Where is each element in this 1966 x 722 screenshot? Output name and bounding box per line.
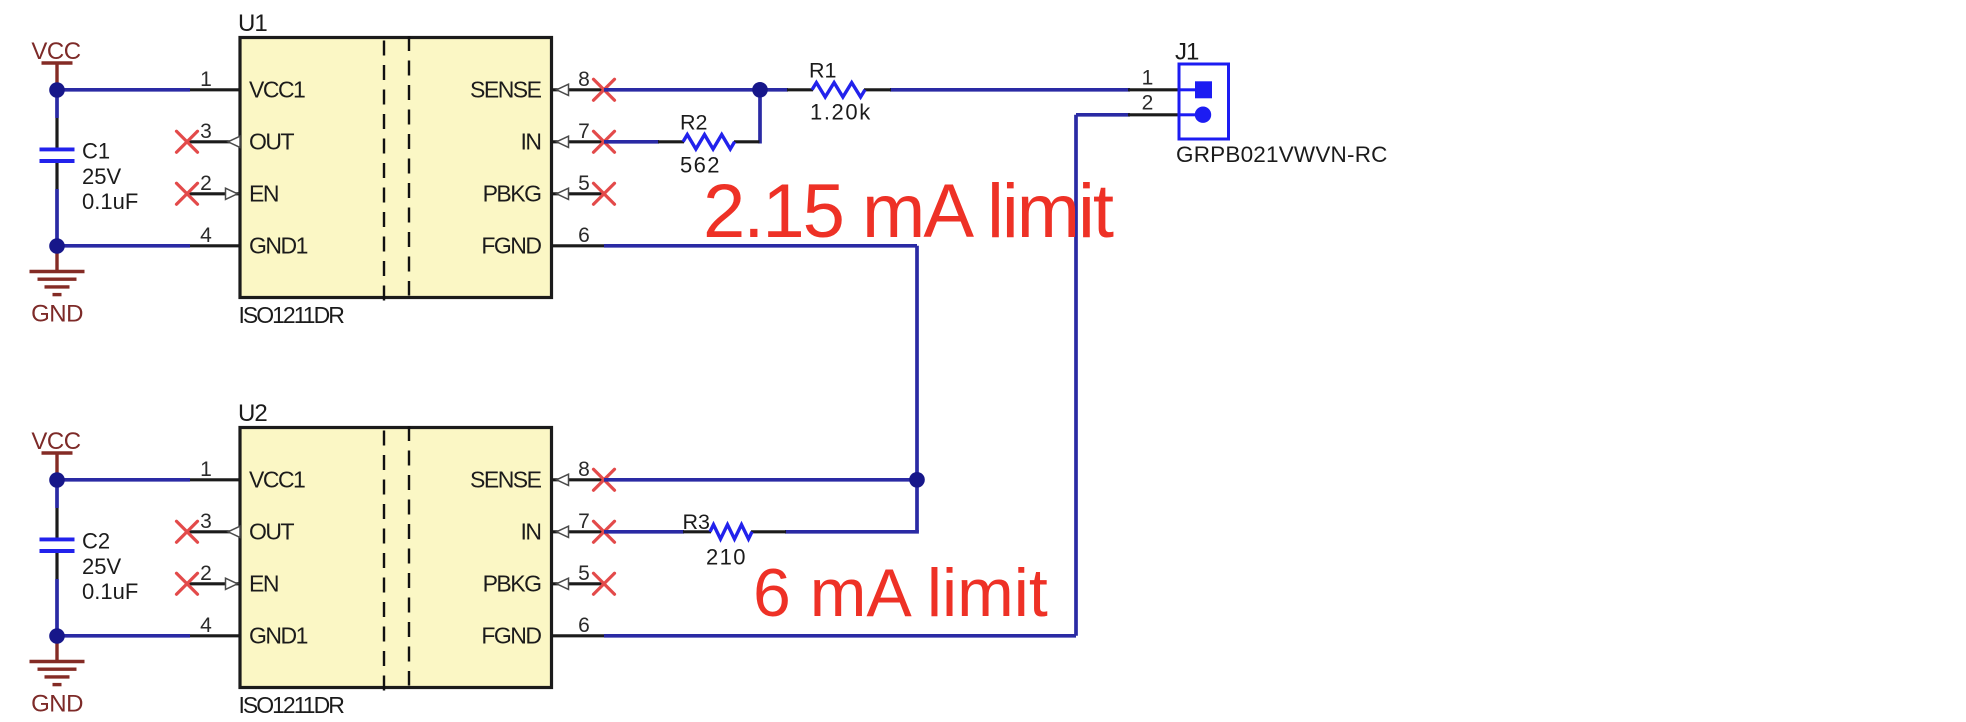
svg-text:OUT: OUT: [249, 519, 295, 545]
svg-text:4: 4: [200, 614, 212, 637]
svg-text:1: 1: [200, 68, 212, 91]
svg-text:25V: 25V: [82, 164, 121, 189]
svg-text:6 mA limit: 6 mA limit: [753, 555, 1048, 631]
svg-text:GND1: GND1: [249, 623, 308, 649]
svg-text:8: 8: [578, 68, 590, 91]
svg-text:2: 2: [200, 172, 212, 195]
svg-text:C1: C1: [82, 139, 110, 164]
svg-text:5: 5: [578, 562, 590, 585]
svg-text:VCC1: VCC1: [249, 467, 305, 493]
svg-text:1: 1: [1142, 67, 1154, 90]
svg-text:IN: IN: [521, 519, 541, 545]
svg-text:PBKG: PBKG: [483, 181, 542, 207]
svg-text:R3: R3: [683, 510, 711, 534]
svg-text:210: 210: [706, 545, 747, 570]
svg-text:U2: U2: [238, 400, 267, 427]
svg-text:2: 2: [200, 562, 212, 585]
svg-text:8: 8: [578, 458, 590, 481]
svg-text:1.20k: 1.20k: [810, 100, 872, 125]
svg-text:GND1: GND1: [249, 233, 308, 259]
svg-text:GND: GND: [31, 300, 83, 327]
svg-text:2.15 mA limit: 2.15 mA limit: [703, 169, 1114, 254]
svg-text:3: 3: [200, 510, 212, 533]
svg-text:EN: EN: [249, 571, 278, 597]
svg-text:7: 7: [578, 120, 590, 143]
svg-text:25V: 25V: [82, 554, 121, 579]
svg-text:EN: EN: [249, 181, 278, 207]
svg-text:7: 7: [578, 510, 590, 533]
svg-text:ISO1211DR: ISO1211DR: [239, 692, 345, 718]
svg-text:3: 3: [200, 120, 212, 143]
svg-text:5: 5: [578, 172, 590, 195]
svg-text:C2: C2: [82, 529, 110, 554]
svg-text:VCC1: VCC1: [249, 77, 305, 103]
svg-text:4: 4: [200, 224, 212, 247]
svg-text:SENSE: SENSE: [470, 77, 542, 103]
svg-text:2: 2: [1142, 92, 1154, 115]
svg-text:1: 1: [200, 458, 212, 481]
svg-text:VCC: VCC: [31, 38, 80, 65]
svg-text:R1: R1: [809, 59, 836, 83]
svg-text:FGND: FGND: [481, 623, 541, 649]
svg-text:GRPB021VWVN-RC: GRPB021VWVN-RC: [1176, 142, 1388, 167]
svg-text:6: 6: [578, 224, 590, 247]
svg-text:R2: R2: [680, 111, 707, 135]
svg-text:U1: U1: [238, 10, 267, 37]
svg-text:VCC: VCC: [31, 428, 80, 455]
svg-text:OUT: OUT: [249, 129, 295, 155]
svg-text:GND: GND: [31, 690, 83, 717]
svg-text:0.1uF: 0.1uF: [82, 189, 138, 214]
svg-text:0.1uF: 0.1uF: [82, 579, 138, 604]
svg-text:J1: J1: [1175, 39, 1199, 66]
svg-text:PBKG: PBKG: [483, 571, 542, 597]
svg-text:ISO1211DR: ISO1211DR: [239, 302, 345, 328]
svg-text:FGND: FGND: [481, 233, 541, 259]
svg-text:IN: IN: [521, 129, 541, 155]
svg-text:SENSE: SENSE: [470, 467, 542, 493]
svg-text:6: 6: [578, 614, 590, 637]
